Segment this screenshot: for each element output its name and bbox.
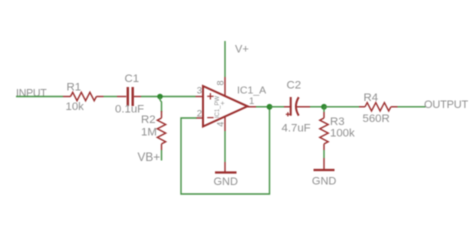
wire R4 to OUTPUT	[398, 106, 426, 108]
wire junction to R2	[160, 97, 162, 113]
op-amp pin 3 stub	[196, 85, 204, 96]
op-amp U1 pin 4	[216, 117, 226, 132]
svg-text:3: 3	[197, 85, 202, 96]
svg-text:V+: V+	[235, 44, 249, 56]
svg-text:2: 2	[197, 108, 202, 119]
svg-text:GND: GND	[312, 176, 337, 188]
wire C1 to op-amp pin 3	[141, 96, 196, 98]
svg-text:4.7uF: 4.7uF	[282, 123, 311, 135]
svg-text:560R: 560R	[363, 113, 390, 125]
svg-text:OUTPUT: OUTPUT	[424, 99, 469, 111]
capacitor C1	[115, 73, 144, 116]
feedback wire loop	[181, 107, 270, 194]
wire junction to R3	[323, 107, 325, 112]
svg-text:INPUT: INPUT	[16, 88, 47, 100]
svg-text:100k: 100k	[330, 128, 355, 140]
ground right	[312, 158, 337, 188]
ground middle	[214, 162, 239, 188]
svg-text:GND: GND	[214, 176, 239, 188]
svg-text:C1: C1	[125, 73, 140, 85]
op-amp pin 1 output stub	[248, 96, 257, 107]
resistor R2	[141, 111, 166, 150]
node V+	[235, 44, 249, 56]
wire op-amp pin 4 to GND	[224, 131, 226, 162]
junction at op-amp output	[267, 104, 273, 110]
svg-text:R1: R1	[67, 82, 82, 94]
svg-text:R2: R2	[141, 114, 156, 126]
op-amp pin 2 stub	[196, 108, 203, 119]
svg-text:4: 4	[216, 122, 226, 127]
svg-text:1: 1	[249, 96, 254, 107]
svg-text:VB+: VB+	[138, 150, 161, 164]
wire R2 to VB+	[161, 150, 163, 161]
node INPUT	[16, 88, 47, 100]
svg-text:1M: 1M	[141, 127, 157, 139]
wire INPUT to R1	[16, 96, 63, 98]
wire junction to C2	[270, 106, 285, 108]
wire R1 to C1	[104, 96, 118, 98]
node OUTPUT	[424, 99, 469, 111]
svg-text:8: 8	[216, 80, 226, 85]
resistor R3	[320, 112, 355, 150]
junction at C1/R2	[157, 94, 163, 100]
wire C2 to junction 2	[310, 106, 324, 108]
svg-text:10k: 10k	[66, 101, 85, 113]
resistor R4	[359, 92, 398, 125]
resistor R1	[63, 82, 104, 114]
wire V+ to op-amp pin 8	[224, 41, 226, 77]
wire R3 to GND	[323, 150, 325, 158]
junction at C2/R3/R4	[321, 104, 327, 110]
svg-text:+: +	[221, 101, 225, 108]
node VB+	[138, 150, 161, 164]
svg-text:C2: C2	[287, 80, 302, 92]
svg-text:R4: R4	[364, 92, 379, 104]
capacitor C2	[282, 80, 311, 135]
svg-text:R3: R3	[330, 116, 345, 128]
svg-text:IC1_A: IC1_A	[237, 85, 266, 97]
wire junction to R4	[324, 106, 359, 108]
svg-text:0.1uF: 0.1uF	[115, 104, 144, 116]
op-amp U1 pin 8	[216, 77, 226, 96]
op-amp U1 triangle IC1_A	[203, 85, 266, 127]
wire pin1 to junction	[256, 106, 270, 108]
